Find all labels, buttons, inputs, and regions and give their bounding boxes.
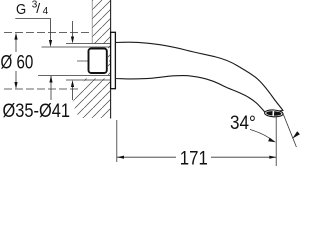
- 171 dimension: right extension line (from outlet): [275, 117, 277, 166]
- escutcheon (edge view, Ø60): [111, 32, 116, 88]
- G 3/4 leader line: [15, 19, 50, 42]
- hole edge line Ø35 top extension: [42, 46, 111, 48]
- Ø35 bottom arrow (up): [50, 76, 52, 100]
- wall section lower hatched area (broken-out, ragged left): [72, 79, 111, 119]
- outlet ellipse (aerator): [264, 110, 283, 118]
- hole edge line Ø41 bottom extension: [66, 79, 111, 81]
- Ø41 bottom arrow (up): [72, 84, 74, 100]
- Ø41 top arrow (down): [72, 21, 74, 38]
- 171 dimension: left extension line: [116, 120, 118, 162]
- 34° leader arc with arrow: [250, 130, 273, 141]
- svg-text:G: G: [16, 2, 26, 18]
- Ø35 top arrow (down): [49, 40, 52, 47]
- hole edge line Ø35 bottom extension: [38, 75, 111, 77]
- wall section upper hatched area: [92, 0, 111, 79]
- hole edge line Ø41 top extension: [66, 43, 111, 45]
- 171 dimension line: [117, 156, 176, 158]
- svg-text:Ø 60: Ø 60: [1, 52, 34, 73]
- svg-text:Ø35-Ø41: Ø35-Ø41: [3, 101, 71, 122]
- svg-text:4: 4: [43, 6, 49, 17]
- svg-text:171: 171: [180, 149, 208, 166]
- svg-text:/: /: [36, 0, 40, 16]
- Ø60 dimension line with arrows: [15, 37, 17, 52]
- spout body outline: [116, 42, 284, 112]
- centerline through union: [77, 60, 118, 62]
- Ø60 bottom extension line (dashed): [4, 88, 80, 90]
- Ø60 top extension line (dashed): [4, 32, 92, 34]
- wall upper left boundary line: [91, 0, 93, 44]
- arrow on stream line pointing to vertex: [292, 131, 300, 138]
- wall face line: [110, 0, 112, 119]
- 34° stream direction line: [283, 114, 296, 148]
- concealed union body: [89, 49, 107, 74]
- svg-text:34°: 34°: [230, 113, 256, 134]
